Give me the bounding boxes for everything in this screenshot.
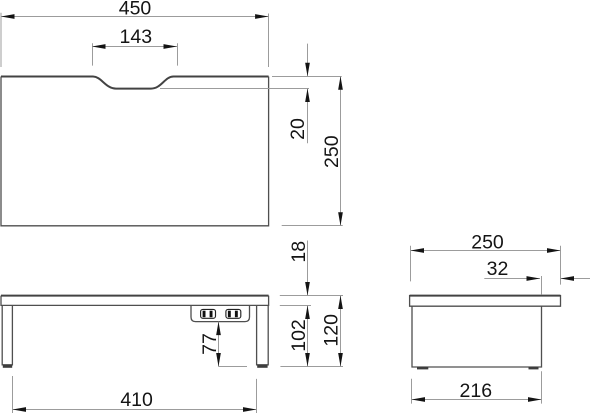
side leg panel xyxy=(412,306,542,367)
side slab outline xyxy=(410,296,561,307)
dimension line 143 xyxy=(92,46,177,48)
arrow 250 up xyxy=(338,76,343,90)
front right foot xyxy=(257,365,267,368)
extension line panel right above slab xyxy=(541,276,543,295)
ground reference line 77 xyxy=(219,366,248,368)
socket icon 1 bars xyxy=(203,311,206,318)
top view top contour with cable notch xyxy=(1,77,269,89)
control pod xyxy=(191,305,250,321)
svg-text:216: 216 xyxy=(460,380,493,402)
svg-text:143: 143 xyxy=(120,26,153,48)
dimension line 32 right segment xyxy=(561,278,590,280)
svg-text:102: 102 xyxy=(288,319,310,352)
socket icon 2 bars xyxy=(228,311,231,318)
extension line 410 right xyxy=(256,379,258,413)
arrow 102 up xyxy=(305,306,310,320)
extension line bottom edge right xyxy=(282,225,343,227)
arrow 32 outer left-pointing xyxy=(561,276,575,281)
extension line board top right xyxy=(280,295,343,297)
dimension line 120 xyxy=(340,296,342,367)
extension line 450 right xyxy=(268,14,270,68)
arrow 250 side left xyxy=(411,248,425,253)
extension line top edge right xyxy=(272,76,342,78)
dimension line 77 xyxy=(218,322,220,367)
extension line 250 right xyxy=(560,246,562,285)
dimension line 20 lower segment xyxy=(307,89,309,144)
extension line 450 left xyxy=(0,13,2,67)
arrow 450 left xyxy=(1,14,15,19)
arrow 20 up xyxy=(305,89,310,103)
dimension line 102 xyxy=(307,306,309,367)
extension line board bottom right xyxy=(280,305,311,307)
arrow 20 down xyxy=(305,63,310,77)
arrow 120 up xyxy=(338,296,343,310)
svg-text:250: 250 xyxy=(321,135,343,168)
svg-text:410: 410 xyxy=(120,389,153,411)
arrow 410 right xyxy=(243,407,257,412)
extension line 143 left xyxy=(92,43,94,65)
arrow 250 side right xyxy=(547,248,561,253)
extension line 410 left xyxy=(12,376,14,413)
extension line notch bottom xyxy=(160,88,309,90)
dimension line 32 left segment xyxy=(484,278,540,280)
front board top edge xyxy=(1,295,269,297)
extension line 143 right xyxy=(177,43,179,65)
arrow 216 right xyxy=(528,397,542,402)
socket icon 2 outline xyxy=(226,309,241,318)
dimension line 410 xyxy=(13,409,257,411)
svg-text:450: 450 xyxy=(119,0,152,20)
arrow 120 down xyxy=(338,353,343,367)
svg-text:77: 77 xyxy=(199,333,221,355)
extension line 250 left xyxy=(410,246,412,282)
dimension line 250 side xyxy=(411,250,561,252)
front left foot xyxy=(3,365,12,368)
arrow 77 down xyxy=(216,353,221,367)
svg-text:250: 250 xyxy=(471,231,504,253)
top view body outline (sides and bottom) xyxy=(1,77,269,226)
dimension line 450 xyxy=(1,16,269,18)
dimension line 20 upper segment xyxy=(307,44,309,77)
extension line ground right xyxy=(280,366,343,368)
socket icon 1 outline xyxy=(201,309,216,318)
extension line 216 left xyxy=(411,379,413,404)
arrow 450 right xyxy=(255,14,269,19)
svg-text:18: 18 xyxy=(288,241,310,263)
arrow 143 right xyxy=(164,44,178,49)
arrow 216 left xyxy=(412,397,426,402)
dimension line 216 xyxy=(412,399,542,401)
dimension line 250 top view xyxy=(340,76,342,226)
arrow 250 down xyxy=(338,212,343,226)
svg-text:120: 120 xyxy=(320,314,342,347)
arrow 410 left xyxy=(13,407,27,412)
dimension line 18 xyxy=(307,241,309,296)
arrow 18 down xyxy=(305,282,310,296)
arrow 32 inner right-pointing xyxy=(527,276,541,281)
front right leg xyxy=(257,305,269,364)
side left foot xyxy=(417,367,428,369)
svg-text:32: 32 xyxy=(487,258,509,280)
front left leg xyxy=(2,305,12,364)
extension line 216 right xyxy=(541,371,543,403)
svg-text:20: 20 xyxy=(287,118,309,140)
side right foot xyxy=(529,367,539,369)
arrow 77 up xyxy=(216,322,221,336)
side slab top edge xyxy=(410,295,561,297)
arrow 102 down xyxy=(305,353,310,367)
front board outline xyxy=(1,296,269,306)
arrow 143 left xyxy=(92,44,106,49)
